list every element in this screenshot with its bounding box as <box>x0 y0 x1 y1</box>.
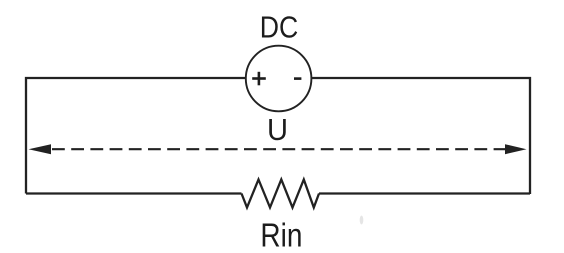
svg-text:DC: DC <box>260 10 299 45</box>
svg-text:U: U <box>267 112 288 147</box>
svg-text:Rin: Rin <box>260 217 302 253</box>
